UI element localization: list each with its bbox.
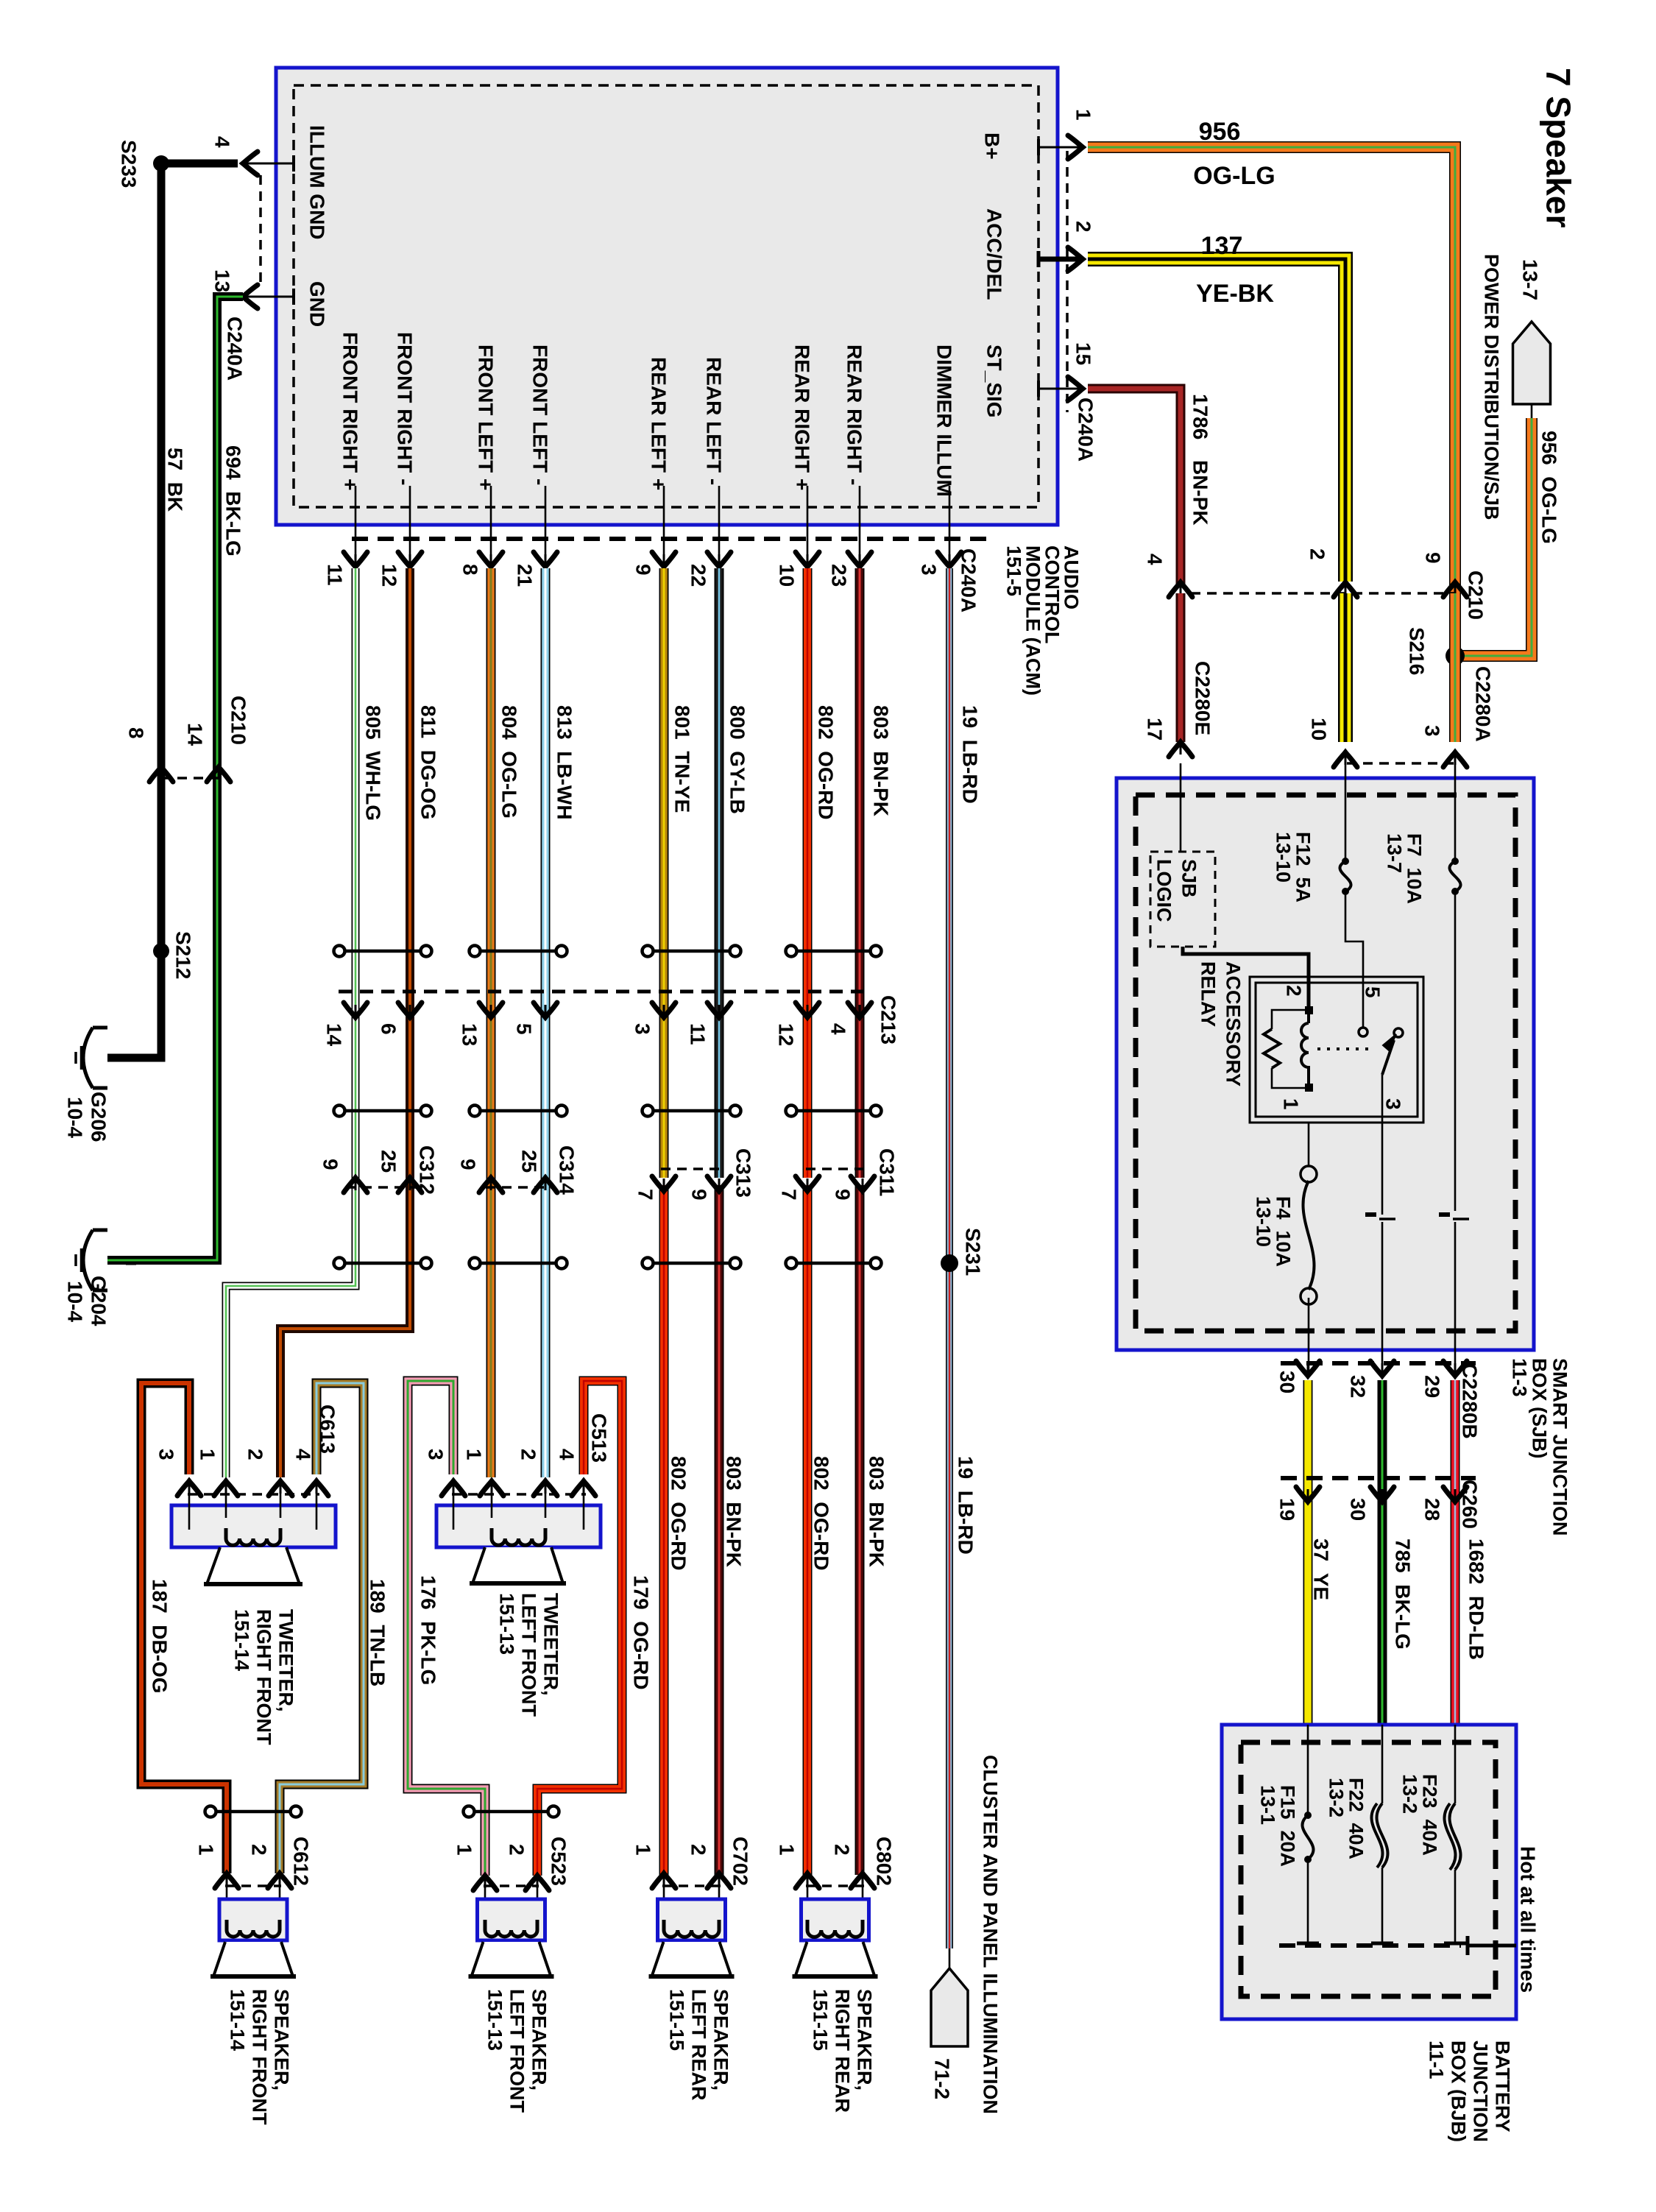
svg-text:13-2: 13-2	[1326, 1778, 1348, 1817]
svg-text:RELAY: RELAY	[1197, 961, 1220, 1027]
inline pair link at C612	[215, 1810, 291, 1814]
SJB internal line F7	[1454, 763, 1457, 861]
svg-text:FRONT LEFT -: FRONT LEFT -	[528, 344, 551, 485]
svg-text:13: 13	[210, 269, 233, 292]
svg-text:DIMMER ILLUM: DIMMER ILLUM	[933, 344, 955, 497]
C213 pin 12	[796, 1003, 819, 1017]
wire 1786 BN-PK from ST_SIG	[1088, 389, 1181, 584]
C702 pin 2	[707, 1873, 731, 1888]
ground G206	[93, 1026, 107, 1030]
C313 pin 7	[652, 1176, 676, 1191]
svg-text:802 OG-RD: 802 OG-RD	[814, 705, 837, 820]
C313 pin 9	[707, 1176, 731, 1191]
F7 line break	[1439, 1212, 1450, 1217]
svg-text:151-14: 151-14	[227, 1989, 249, 2051]
relay actuation dotted line	[1317, 1047, 1374, 1050]
svg-text:FRONT LEFT +: FRONT LEFT +	[474, 344, 497, 490]
svg-text:4: 4	[827, 1023, 849, 1035]
svg-text:13: 13	[458, 1023, 481, 1046]
svg-text:25: 25	[377, 1150, 400, 1173]
ACM output stem pin 23	[859, 486, 861, 565]
speaker voice coil	[485, 1920, 537, 1937]
splice S216	[1446, 646, 1465, 665]
connector C314 dashed	[486, 1186, 553, 1189]
svg-text:S216: S216	[1405, 627, 1428, 675]
svg-text:1: 1	[462, 1449, 485, 1460]
svg-text:7 Speaker: 7 Speaker	[1540, 68, 1578, 227]
svg-text:RIGHT FRONT: RIGHT FRONT	[249, 1989, 271, 2125]
inline pair link at y1292	[479, 950, 557, 953]
svg-text:BOX (SJB): BOX (SJB)	[1529, 1358, 1551, 1459]
svg-text:ACCESSORY: ACCESSORY	[1222, 961, 1245, 1086]
svg-text:C240A: C240A	[957, 548, 980, 612]
svg-text:BATTERY: BATTERY	[1492, 2040, 1514, 2133]
C260 pin 30	[1370, 1487, 1394, 1502]
C513 pin 2	[534, 1481, 557, 1496]
svg-text:3: 3	[917, 564, 940, 576]
connector C523 dashed	[484, 1884, 539, 1887]
svg-text:1: 1	[775, 1844, 798, 1856]
svg-text:C260: C260	[1458, 1480, 1481, 1529]
inline pair link at y1292	[344, 950, 422, 953]
inline pair link at y1716	[479, 1262, 557, 1265]
svg-text:F23 40A: F23 40A	[1419, 1774, 1441, 1856]
svg-text:8: 8	[459, 564, 481, 576]
svg-text:C240A: C240A	[1074, 397, 1097, 462]
C311 pin 7	[796, 1176, 819, 1191]
svg-text:TWEETER,: TWEETER,	[540, 1593, 562, 1696]
svg-text:C313: C313	[732, 1148, 754, 1198]
splice S212	[153, 943, 169, 959]
svg-text:785 BK-LG: 785 BK-LG	[1391, 1538, 1414, 1650]
inline pair link at y1509	[796, 1109, 871, 1113]
svg-text:C612: C612	[289, 1837, 312, 1886]
splice S231 on 19 LB-RD	[941, 1254, 958, 1272]
svg-text:C210: C210	[1464, 570, 1487, 620]
svg-text:13-10: 13-10	[1253, 1196, 1275, 1247]
svg-text:REAR RIGHT +: REAR RIGHT +	[790, 344, 813, 490]
connector C2280A	[1347, 762, 1457, 765]
svg-text:151-14: 151-14	[231, 1609, 253, 1671]
relay coil	[1305, 1006, 1313, 1014]
svg-text:POWER DISTRIBUTION/SJB: POWER DISTRIBUTION/SJB	[1481, 254, 1503, 520]
svg-text:7: 7	[634, 1189, 657, 1201]
audio control module (ACM) box	[276, 68, 1058, 525]
wire 803 BN-PK upper	[855, 568, 865, 1178]
svg-text:10-4: 10-4	[63, 1097, 86, 1138]
C2280B pin 30	[1296, 1361, 1320, 1376]
svg-text:32: 32	[1346, 1375, 1369, 1398]
svg-text:F12 5A: F12 5A	[1292, 832, 1314, 902]
C702 pin 1	[652, 1873, 676, 1888]
fuse F4 10A	[1303, 1181, 1314, 1290]
C213 pin 11	[707, 1003, 731, 1017]
relay resistor	[1272, 1010, 1305, 1029]
svg-text:13-10: 13-10	[1273, 832, 1295, 883]
wire 802 OG-RD upper	[803, 568, 813, 1178]
battery junction box (BJB)	[1222, 1725, 1516, 2019]
wire 802 OG-RD to right rear	[803, 1185, 813, 1875]
C523 pin 1	[473, 1876, 497, 1890]
svg-text:SJB: SJB	[1178, 859, 1200, 898]
C311 pin 9	[851, 1176, 874, 1191]
svg-text:SMART JUNCTION: SMART JUNCTION	[1549, 1358, 1571, 1536]
pin stub ST_SIG pin 15	[1038, 388, 1080, 390]
svg-text:C312: C312	[415, 1145, 438, 1195]
C2280B pin 32	[1370, 1361, 1394, 1376]
BJB bottom bus	[1279, 1943, 1461, 1948]
svg-text:LOGIC: LOGIC	[1153, 859, 1175, 922]
inline pair link at y1716	[652, 1262, 731, 1265]
svg-text:F22 40A: F22 40A	[1345, 1778, 1367, 1859]
svg-text:5: 5	[512, 1023, 535, 1035]
svg-text:C311: C311	[875, 1148, 898, 1196]
svg-text:57 BK: 57 BK	[163, 448, 186, 512]
inline pair link at y1716	[796, 1262, 871, 1265]
C213 pin 14	[344, 1003, 367, 1017]
wire 956 OG-LG lower	[1449, 593, 1461, 742]
inline pair link at y1509	[344, 1109, 422, 1113]
relay switch blade pin 3	[1394, 1028, 1403, 1037]
svg-text:803 BN-PK: 803 BN-PK	[865, 1456, 888, 1567]
line SJB LOGIC to relay pin 2	[1183, 947, 1309, 1007]
svg-text:19 LB-RD: 19 LB-RD	[958, 705, 981, 804]
svg-text:1: 1	[1072, 109, 1094, 121]
svg-text:137: 137	[1201, 232, 1243, 260]
inline pair link at C523	[473, 1810, 549, 1814]
C213 pin 6	[398, 1003, 422, 1017]
svg-text:C613: C613	[316, 1404, 339, 1454]
wire 19 LB-RD to cluster pentagon	[949, 1948, 951, 1968]
ACM output stem pin 8	[490, 486, 492, 565]
C260 pin 19	[1296, 1487, 1320, 1502]
wire 189 TN-LB	[280, 1383, 364, 1873]
line F7 down to C2280B	[1454, 891, 1457, 1211]
svg-text:15: 15	[1072, 342, 1094, 365]
svg-text:11-1: 11-1	[1426, 2040, 1448, 2080]
smart junction box (SJB)	[1117, 778, 1534, 1350]
C802 pin 2	[851, 1873, 874, 1888]
tweeter left front horn	[473, 1547, 563, 1583]
C314 pin 25	[534, 1178, 557, 1192]
svg-text:801 TN-YE: 801 TN-YE	[670, 705, 693, 813]
svg-text:1: 1	[631, 1844, 654, 1856]
svg-text:10-4: 10-4	[63, 1281, 86, 1322]
svg-text:5: 5	[1361, 986, 1384, 998]
svg-text:813 LB-WH: 813 LB-WH	[553, 705, 576, 820]
svg-text:1: 1	[196, 1449, 219, 1460]
C213 pin 4	[848, 1003, 871, 1017]
SJB internal line F12	[1345, 763, 1347, 861]
svg-text:11: 11	[323, 564, 346, 586]
speaker horn	[213, 1942, 293, 1976]
svg-text:71-2: 71-2	[930, 2058, 953, 2099]
svg-text:803 BN-PK: 803 BN-PK	[722, 1456, 745, 1567]
C613 pin 2	[269, 1481, 292, 1496]
svg-text:C523: C523	[547, 1837, 570, 1886]
svg-text:956: 956	[1199, 118, 1241, 146]
svg-text:2: 2	[1306, 548, 1328, 560]
speaker voice coil	[807, 1920, 863, 1937]
wire 1682 RD-LB	[1451, 1380, 1460, 1725]
C802 pin 1	[796, 1873, 819, 1888]
relay pin 5 contact	[1362, 977, 1365, 1028]
wire 785 BK-LG	[1378, 1380, 1387, 1725]
svg-text:9: 9	[319, 1159, 342, 1170]
svg-text:176 PK-LG: 176 PK-LG	[417, 1575, 439, 1685]
svg-text:22: 22	[687, 564, 710, 587]
svg-text:151-13: 151-13	[484, 1989, 506, 2051]
svg-text:13-7: 13-7	[1384, 833, 1406, 873]
svg-text:RIGHT REAR: RIGHT REAR	[832, 1989, 854, 2113]
connector C260	[1281, 1476, 1476, 1480]
connector C210 right	[1191, 592, 1454, 595]
wire 187 DB-OG	[141, 1383, 227, 1873]
connector C2280B	[1281, 1361, 1476, 1365]
svg-text:10: 10	[1307, 718, 1330, 741]
svg-text:9: 9	[831, 1189, 854, 1201]
speaker box	[658, 1899, 726, 1940]
svg-text:13-2: 13-2	[1399, 1774, 1421, 1814]
svg-text:C213: C213	[877, 995, 899, 1045]
speaker box	[219, 1899, 287, 1940]
svg-text:LEFT REAR: LEFT REAR	[688, 1989, 710, 2101]
svg-text:2: 2	[244, 1449, 266, 1460]
ground G204	[93, 1229, 107, 1232]
wire 956 OG-LG from B+	[1088, 147, 1455, 651]
svg-text:804 OG-LG: 804 OG-LG	[498, 705, 520, 819]
wire 1786 BN-PK lower	[1176, 593, 1186, 742]
connector C313 dashed	[661, 1167, 725, 1170]
ACM output stem pin 21	[545, 486, 547, 565]
svg-text:30: 30	[1346, 1498, 1369, 1521]
svg-text:9: 9	[687, 1189, 710, 1201]
inline pair link at y1292	[796, 950, 871, 953]
C314 pin 9	[479, 1178, 503, 1192]
svg-text:2: 2	[517, 1449, 539, 1460]
svg-text:S212: S212	[171, 931, 194, 979]
svg-text:7: 7	[777, 1189, 800, 1201]
C613 pin 4	[305, 1481, 328, 1496]
svg-text:C2280B: C2280B	[1458, 1363, 1481, 1439]
relay pin3 line break	[1381, 1123, 1384, 1215]
svg-text:REAR LEFT -: REAR LEFT -	[702, 357, 725, 485]
tweeter right front horn	[207, 1547, 300, 1584]
svg-text:ILLUM GND: ILLUM GND	[305, 125, 328, 240]
C2280B pin 29	[1443, 1361, 1467, 1376]
svg-text:30: 30	[1275, 1371, 1298, 1393]
fuse F23 40A	[1454, 1725, 1457, 1803]
fuse F12 5A	[1340, 861, 1351, 891]
svg-text:LEFT FRONT: LEFT FRONT	[506, 1989, 528, 2113]
wire 805 WH-LG	[226, 568, 355, 1477]
speaker horn	[472, 1942, 551, 1976]
svg-text:ACC/DEL: ACC/DEL	[983, 208, 1005, 300]
tweeter left front box	[436, 1505, 601, 1547]
svg-text:Hot at all times: Hot at all times	[1516, 1846, 1539, 1993]
svg-text:800 GY-LB: 800 GY-LB	[726, 705, 749, 814]
svg-text:C210: C210	[227, 696, 250, 745]
svg-text:ST_SIG: ST_SIG	[983, 344, 1005, 418]
connector C612 dashed	[225, 1884, 281, 1887]
C312 pin 9	[344, 1178, 367, 1192]
splice S233	[153, 155, 169, 172]
C523 pin 2	[526, 1876, 549, 1890]
svg-text:C802: C802	[872, 1837, 895, 1886]
svg-text:9: 9	[631, 564, 654, 576]
wire 137 YE-BK from ACC/DEL	[1088, 259, 1345, 582]
svg-text:6: 6	[377, 1023, 400, 1035]
connector C702 dashed	[662, 1884, 721, 1887]
svg-text:C513: C513	[587, 1413, 610, 1463]
svg-text:4: 4	[1143, 554, 1166, 565]
speaker horn	[652, 1942, 732, 1976]
svg-text:1: 1	[1279, 1098, 1302, 1110]
svg-text:LEFT FRONT: LEFT FRONT	[518, 1593, 540, 1717]
ACM output stem pin 3	[949, 486, 951, 565]
inline pair link at y1716	[344, 1262, 422, 1265]
svg-text:28: 28	[1420, 1498, 1443, 1521]
C312 pin 25	[398, 1178, 422, 1192]
wire 956 OG-LG from power distribution	[1455, 418, 1532, 656]
svg-text:2: 2	[687, 1844, 710, 1856]
svg-text:187 DB-OG: 187 DB-OG	[148, 1579, 171, 1694]
svg-text:694 BK-LG: 694 BK-LG	[222, 445, 244, 556]
svg-text:805 WH-LG: 805 WH-LG	[361, 705, 384, 821]
svg-text:TWEETER,: TWEETER,	[275, 1609, 297, 1712]
svg-text:REAR LEFT +: REAR LEFT +	[647, 357, 670, 490]
fuse F22 40A	[1381, 1725, 1384, 1803]
svg-text:S231: S231	[961, 1228, 984, 1276]
svg-text:S233: S233	[117, 140, 140, 188]
wire 694 BK-LG from GND pin	[247, 296, 294, 298]
svg-text:4: 4	[210, 136, 233, 148]
svg-text:189 TN-LB: 189 TN-LB	[366, 1579, 389, 1686]
svg-text:19 LB-RD: 19 LB-RD	[954, 1456, 977, 1555]
ACM output stem pin 10	[807, 486, 809, 565]
svg-text:14: 14	[322, 1023, 345, 1047]
svg-text:12: 12	[774, 1023, 797, 1046]
svg-text:11-3: 11-3	[1509, 1358, 1531, 1397]
svg-text:3: 3	[631, 1023, 654, 1035]
speaker input stems	[484, 1876, 486, 1923]
svg-text:956 OG-LG: 956 OG-LG	[1538, 431, 1560, 544]
accessory delay relay box	[1250, 977, 1423, 1123]
svg-text:25: 25	[517, 1150, 540, 1173]
svg-text:17: 17	[1143, 718, 1166, 741]
wire 813 LB-WH	[541, 568, 551, 1477]
off-page connector POWER DISTRIBUTION/SJB	[1513, 322, 1551, 404]
wire 57 BK vertical	[107, 163, 161, 1058]
svg-text:179 OG-RD: 179 OG-RD	[629, 1575, 652, 1690]
wire 802 OG-RD to left rear	[659, 1185, 669, 1875]
ACM output stem pin 9	[663, 486, 665, 565]
svg-text:C2280E: C2280E	[1191, 661, 1214, 735]
svg-text:C314: C314	[555, 1145, 578, 1195]
C513 pin 1	[480, 1481, 503, 1496]
svg-text:F7 10A: F7 10A	[1404, 833, 1426, 904]
off-page connector 71-2 cluster	[931, 1968, 968, 2046]
svg-text:C2280A: C2280A	[1471, 666, 1494, 742]
svg-text:19: 19	[1275, 1498, 1298, 1521]
C213 pin 13	[479, 1003, 503, 1017]
svg-text:1682 RD-LB: 1682 RD-LB	[1465, 1538, 1487, 1660]
svg-text:151-15: 151-15	[666, 1989, 688, 2051]
C513 pin 4	[572, 1481, 595, 1496]
svg-text:2: 2	[1072, 221, 1094, 233]
svg-text:14: 14	[183, 723, 206, 746]
svg-text:1786: 1786	[1189, 394, 1211, 439]
connector C613 dashed	[188, 1493, 319, 1496]
svg-text:YE-BK: YE-BK	[1196, 280, 1274, 308]
ACM output stem pin 12	[409, 486, 411, 565]
svg-text:811 DG-OG: 811 DG-OG	[417, 705, 439, 820]
relay pin1 line to F4	[1308, 1123, 1310, 1165]
svg-text:151-15: 151-15	[810, 1989, 832, 2051]
speaker box	[478, 1899, 545, 1940]
C260 pin 28	[1443, 1487, 1467, 1502]
pin stub ACC/DEL pin 2	[1038, 257, 1080, 262]
svg-text:C702: C702	[729, 1837, 751, 1886]
speaker input stems	[226, 1873, 228, 1923]
speaker input stems	[807, 1873, 809, 1923]
inline pair link at y1292	[652, 950, 731, 953]
svg-text:FRONT RIGHT +: FRONT RIGHT +	[339, 332, 361, 490]
svg-text:C240A: C240A	[223, 317, 246, 381]
svg-text:F4 10A: F4 10A	[1273, 1196, 1295, 1267]
wire 37 YE	[1303, 1380, 1313, 1725]
svg-text:4: 4	[291, 1449, 314, 1460]
pin stub B+ pin 1	[1038, 146, 1080, 149]
svg-text:37 YE: 37 YE	[1309, 1538, 1332, 1600]
svg-text:FRONT RIGHT -: FRONT RIGHT -	[393, 332, 416, 485]
ACM output stem pin 22	[718, 486, 721, 565]
svg-text:11: 11	[686, 1023, 709, 1045]
svg-text:13-1: 13-1	[1257, 1785, 1279, 1825]
svg-text:BOX (BJB): BOX (BJB)	[1448, 2040, 1470, 2142]
line F12 to relay pin 5	[1345, 891, 1363, 977]
wire 137 YE-BK lower	[1338, 593, 1353, 742]
wire 801 TN-YE	[659, 568, 669, 1178]
speaker horn	[796, 1942, 875, 1976]
svg-text:B+: B+	[980, 132, 1003, 160]
connector C240A dashed between left pins	[259, 175, 262, 289]
tweeter right front box	[171, 1505, 336, 1547]
C612 pin 1	[215, 1873, 238, 1888]
svg-text:10: 10	[775, 564, 798, 587]
ACM output stem pin 11	[355, 486, 357, 565]
fuse F7 10A	[1449, 861, 1460, 891]
arrow pin 4 ILLUM GND	[243, 152, 258, 175]
svg-text:OG-LG: OG-LG	[1193, 162, 1275, 190]
connector C311 dashed	[806, 1167, 870, 1170]
SJB internal line from C2280E	[1180, 763, 1182, 852]
svg-text:SPEAKER,: SPEAKER,	[710, 1989, 732, 2091]
wire 19 LB-RD dimmer	[946, 568, 953, 1948]
SJB LOGIC box	[1150, 852, 1215, 947]
C213 pin 3	[652, 1003, 676, 1017]
svg-text:13-7: 13-7	[1518, 259, 1541, 300]
svg-text:802 OG-RD: 802 OG-RD	[810, 1456, 832, 1571]
inline pair link at y1509	[652, 1109, 731, 1113]
inline pair link at y1509	[479, 1109, 557, 1113]
svg-text:1: 1	[194, 1844, 217, 1856]
svg-text:2: 2	[505, 1844, 528, 1856]
svg-text:SPEAKER,: SPEAKER,	[528, 1989, 551, 2091]
C613 pin 3	[177, 1481, 201, 1496]
svg-text:REAR RIGHT -: REAR RIGHT -	[843, 344, 866, 485]
svg-text:9: 9	[1421, 552, 1444, 564]
